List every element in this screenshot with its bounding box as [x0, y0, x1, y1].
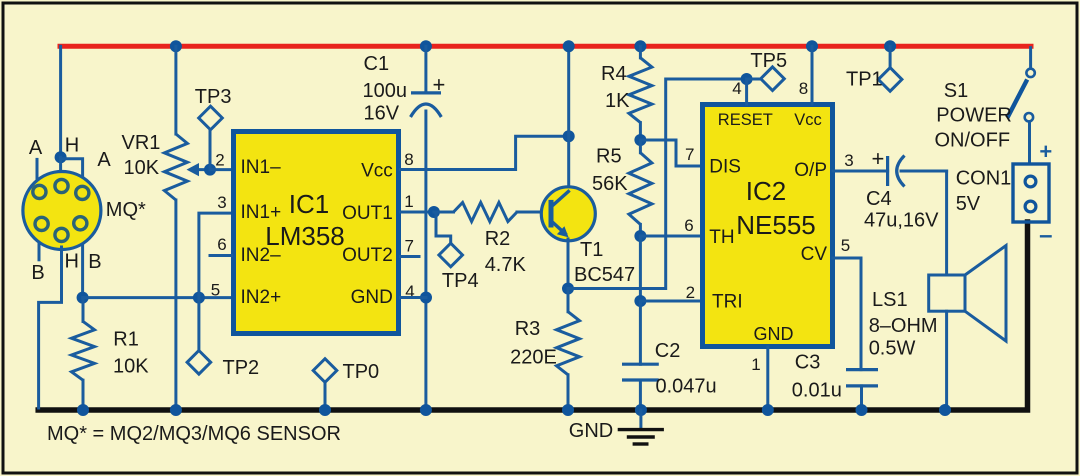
capacitor C3 [846, 368, 878, 371]
node sensor output B [77, 292, 89, 304]
svg-text:7: 7 [685, 145, 694, 164]
wire speaker to ground [945, 311, 948, 408]
svg-text:Vcc: Vcc [361, 161, 393, 182]
wire TP0 stub [324, 383, 327, 408]
svg-text:5V: 5V [956, 193, 981, 215]
svg-text:220E: 220E [510, 347, 557, 369]
wire emitter to reset [568, 79, 747, 289]
node R3 bottom [562, 404, 574, 416]
svg-text:5: 5 [211, 281, 220, 300]
node H top [55, 151, 67, 163]
svg-text:R3: R3 [515, 318, 541, 340]
wire O/P pin [833, 170, 888, 173]
node C2 bottom [635, 404, 647, 416]
svg-text:NE555: NE555 [736, 210, 816, 240]
capacitor C1 [424, 46, 427, 93]
svg-text:GND: GND [569, 420, 613, 442]
svg-text:CV: CV [801, 244, 828, 265]
node TP0 bottom [319, 404, 331, 416]
svg-text:8: 8 [404, 150, 413, 169]
svg-text:R4: R4 [601, 63, 627, 85]
svg-text:2: 2 [686, 283, 695, 302]
switch S1 [1029, 46, 1032, 68]
svg-text:2: 2 [215, 151, 224, 170]
testpoint TP0 [313, 359, 337, 383]
svg-text:100u: 100u [363, 80, 408, 102]
svg-text:TRI: TRI [712, 292, 743, 313]
wire wiper to IN1- [210, 168, 232, 171]
svg-text:+: + [871, 146, 884, 171]
connector CON1 [1013, 164, 1049, 222]
svg-text:+: + [1039, 139, 1052, 164]
svg-text:IN1+: IN1+ [241, 202, 282, 223]
resistor R5 [639, 140, 642, 153]
svg-text:TP0: TP0 [343, 361, 380, 383]
testpoint TP3 [199, 106, 223, 130]
wire TP2 stub [197, 298, 200, 350]
resistor R1 [82, 298, 85, 322]
svg-text:H: H [65, 135, 79, 157]
svg-text:IN1–: IN1– [241, 157, 282, 178]
svg-text:–: – [1039, 222, 1052, 249]
wire ground stub [639, 410, 642, 427]
svg-text:IN2+: IN2+ [241, 287, 282, 308]
wire TH pin [640, 235, 702, 238]
node R1 bottom [77, 404, 89, 416]
svg-text:Vcc: Vcc [794, 111, 822, 129]
svg-text:16V: 16V [364, 103, 400, 125]
svg-text:ON/OFF: ON/OFF [935, 130, 1011, 152]
svg-text:8–OHM: 8–OHM [869, 315, 938, 337]
svg-text:+: + [432, 72, 445, 97]
transistor T1 BC547 [541, 187, 595, 241]
wire collector to rail [567, 46, 570, 188]
svg-text:R2: R2 [485, 228, 511, 250]
wire IC2 GND pin [766, 347, 769, 408]
testpoint TP1 [878, 68, 902, 92]
svg-text:TP2: TP2 [223, 357, 260, 379]
svg-text:A: A [29, 137, 43, 159]
svg-text:GND: GND [351, 287, 393, 308]
loudspeaker LS1 [929, 275, 965, 311]
svg-text:VR1: VR1 [122, 132, 161, 154]
wire TP4 stub [436, 214, 451, 243]
potentiometer VR1 [174, 46, 177, 134]
svg-text:C4: C4 [866, 188, 892, 210]
svg-text:CON1: CON1 [956, 168, 1012, 190]
gas sensor MQ* [23, 172, 101, 250]
svg-text:B: B [88, 251, 101, 273]
node TH junction [634, 230, 646, 242]
svg-text:POWER: POWER [936, 105, 1012, 127]
wire TH to TRI [639, 236, 642, 301]
node C3 bottom [856, 404, 868, 416]
svg-text:4: 4 [732, 79, 741, 98]
resistor R2 [434, 211, 454, 214]
svg-text:O/P: O/P [794, 160, 827, 181]
capacitor C4 [886, 156, 889, 186]
wire Vcc pin IC2 [811, 46, 814, 104]
svg-text:10K: 10K [124, 157, 160, 179]
wire riser to IN1+ [199, 213, 232, 298]
svg-text:IC1: IC1 [289, 189, 329, 219]
svg-text:3: 3 [844, 151, 853, 170]
svg-text:1K: 1K [605, 90, 630, 112]
wire B pin down to node [81, 245, 84, 298]
svg-text:6: 6 [684, 216, 693, 235]
svg-text:OUT2: OUT2 [342, 245, 393, 266]
wire H-A jumper [61, 159, 83, 177]
timer IC2 NE555 body [703, 105, 833, 347]
testpoint TP5 [761, 67, 785, 91]
node collector supply junction [563, 130, 575, 142]
wire IC1 Vcc to supply [401, 136, 569, 169]
wire TP3 stub [209, 131, 212, 170]
node TP2 junction [193, 292, 205, 304]
svg-text:4.7K: 4.7K [485, 254, 527, 276]
node C1 top [420, 40, 432, 52]
svg-text:BC547: BC547 [574, 264, 635, 286]
wire B node to IN2+ [83, 296, 232, 299]
svg-text:TP1: TP1 [846, 69, 883, 91]
svg-text:A: A [97, 149, 111, 171]
resistor R4 [639, 46, 642, 58]
svg-text:IN2–: IN2– [241, 245, 282, 266]
node IC1 GND junction [420, 292, 432, 304]
svg-text:DIS: DIS [709, 157, 741, 178]
wire +5V red rail [60, 44, 1031, 49]
wire IC1 GND pin [401, 296, 427, 299]
svg-text:MQ*: MQ* [106, 199, 146, 221]
svg-text:1: 1 [404, 192, 413, 211]
svg-text:TP4: TP4 [442, 270, 479, 292]
svg-text:C1: C1 [364, 53, 390, 75]
capacitor C2 [639, 301, 642, 364]
svg-text:0.047u: 0.047u [656, 376, 717, 398]
wire A stub top-left [36, 159, 39, 178]
svg-text:0.01u: 0.01u [792, 380, 842, 402]
node VR1 bottom [170, 404, 182, 416]
svg-text:S1: S1 [944, 80, 968, 102]
node R4 R5 junction [634, 134, 646, 146]
svg-text:56K: 56K [592, 173, 628, 195]
node C1 line bottom [420, 404, 432, 416]
svg-text:5: 5 [841, 236, 850, 255]
wire H pin into sensor [59, 157, 62, 176]
node VR1 wiper [204, 164, 216, 176]
wire rail to H pin [59, 46, 62, 157]
wire RESET pin [745, 79, 748, 104]
svg-text:C2: C2 [655, 340, 681, 362]
ground symbol [618, 428, 664, 431]
node T1 collector rail [563, 40, 575, 52]
node OUT1 [428, 206, 440, 218]
svg-text:C3: C3 [795, 352, 821, 374]
svg-text:IC2: IC2 [746, 176, 786, 206]
svg-text:B: B [31, 262, 44, 284]
svg-text:OUT1: OUT1 [342, 203, 393, 224]
node TRI junction [634, 295, 646, 307]
testpoint TP4 [439, 243, 463, 267]
node TP1 rail [884, 40, 896, 52]
svg-text:47u,16V: 47u,16V [864, 210, 939, 232]
svg-text:TP5: TP5 [750, 50, 787, 72]
node IC2 GND bottom [762, 404, 774, 416]
svg-text:7: 7 [404, 237, 413, 256]
svg-text:GND: GND [754, 324, 794, 344]
wire TP5 stub [747, 78, 761, 81]
svg-text:TP3: TP3 [195, 86, 232, 108]
svg-text:10K: 10K [113, 356, 149, 378]
wire IN2- stub [210, 254, 232, 257]
svg-text:TH: TH [709, 227, 734, 248]
svg-text:1: 1 [751, 355, 760, 374]
svg-text:H: H [64, 251, 78, 273]
wire ground rail [38, 222, 1027, 410]
svg-text:6: 6 [217, 235, 226, 254]
svg-text:T1: T1 [580, 239, 603, 261]
node VR1 top [170, 40, 182, 52]
op-amp IC1 LM358 body [234, 132, 399, 334]
wire C4 to speaker [945, 171, 948, 275]
svg-text:R5: R5 [596, 146, 622, 168]
wire DIS pin [640, 140, 702, 166]
node RESET junction [741, 73, 753, 85]
testpoint TP2 [187, 351, 211, 375]
wire OUT2 stub [401, 255, 420, 258]
wire CV pin [833, 258, 861, 370]
wire TP1 stub [889, 46, 892, 67]
node R4 top [634, 40, 646, 52]
wire TRI pin [640, 300, 702, 303]
svg-text:LS1: LS1 [872, 289, 908, 311]
wire B stub bottom-left [38, 243, 41, 260]
svg-text:MQ* = MQ2/MQ3/MQ6 SENSOR: MQ* = MQ2/MQ3/MQ6 SENSOR [47, 423, 341, 445]
node speaker bottom [939, 404, 951, 416]
svg-text:R1: R1 [113, 329, 139, 351]
node emitter junction [562, 283, 574, 295]
resistor R3 [567, 289, 570, 312]
svg-text:0.5W: 0.5W [869, 338, 916, 360]
svg-text:8: 8 [799, 79, 808, 98]
wire H bottom to ground rail [39, 247, 62, 408]
wire T1 emitter down [567, 239, 570, 289]
svg-text:3: 3 [217, 193, 226, 212]
wire OUT1 [401, 211, 434, 214]
svg-text:RESET: RESET [718, 111, 773, 129]
node Vcc rail IC2 [806, 40, 818, 52]
